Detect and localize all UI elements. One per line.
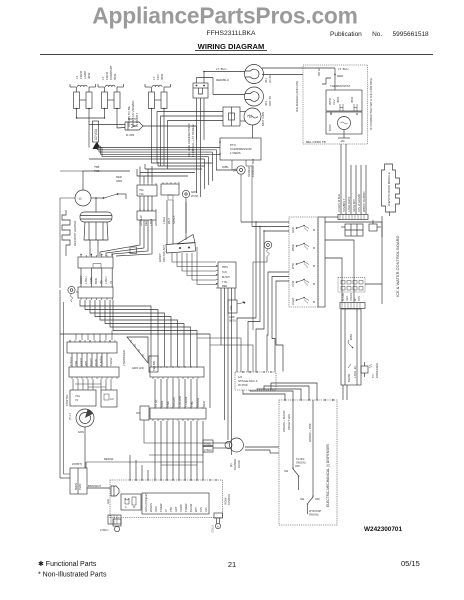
svg-text:SW(ON): SW(ON) [296,462,306,465]
svg-text:LT.BLU: LT.BLU [100,528,108,532]
left rail wire [60,171,83,288]
wire RED/BLU to bulb2 [197,78,246,95]
svg-text:ICE/WTR DOOR MODULE: ICE/WTR DOOR MODULE [387,172,391,206]
terminal note vertical text [187,123,195,157]
board bottom connector right [212,494,232,533]
svg-text:RED: RED [346,296,349,301]
evap fan motor circle [68,409,94,468]
svg-text:05/15: 05/15 [401,559,420,568]
dispenser left labels [282,410,312,442]
svg-text:ICE MAKER (ADD-ON): ICE MAKER (ADD-ON) [295,81,299,112]
svg-text:(W/O): (W/O) [229,320,236,323]
thermostat switch contact [91,193,126,199]
board wire labels entering top [130,455,148,480]
svg-text:WTR: WTR [291,263,295,269]
P2 wire color labels [162,215,176,224]
damper door motor [203,438,279,470]
svg-text:L.BLU -20-: L.BLU -20- [353,365,357,378]
svg-text:TAN: TAN [222,271,227,274]
ice water board drop wire [381,216,383,304]
S1 labels [79,275,113,284]
CN2 labels [342,293,361,301]
lamp socket junction dots [76,108,165,119]
icemaker dashed enclosure [303,65,368,144]
ice & water control board label [395,235,400,297]
svg-text:W/GRN: W/GRN [149,503,153,512]
board pin label box [142,493,209,514]
svg-text:ORN: ORN [160,401,164,407]
svg-text:-11-: -11- [78,197,83,201]
svg-text:BRN/W: BRN/W [196,397,200,407]
svg-text:NON-S: NON-S [172,215,176,224]
LED indicator [361,362,379,378]
svg-text:RED: RED [222,285,227,288]
svg-text:RD(B): RD(B) [204,443,211,446]
ice/water door module stepped outline [382,164,400,216]
svg-text:75A: 75A [139,188,144,192]
harness step wires mid [137,160,213,176]
icemaker water valve inner box [326,90,362,111]
board inner fuse box [121,494,141,510]
svg-text:73 (2): 73 (2) [154,400,158,407]
strip A feed drops [76,331,112,341]
svg-text:MOT GRN: MOT GRN [261,112,265,126]
svg-text:RED: RED [144,220,148,226]
svg-text:ORN: ORN [154,506,158,512]
fan label [261,112,265,126]
svg-text:21: 21 [228,560,236,569]
half stage ADC box [235,371,276,390]
header logo [92,3,357,29]
svg-text:GRN: GRN [154,220,158,226]
small junction box [130,247,137,254]
dispenser aux switch 2 [300,494,322,517]
svg-text:W(PRT): W(PRT) [72,462,82,466]
strip E [150,407,206,421]
svg-text:ICE & WATER CONTROL BOARD: ICE & WATER CONTROL BOARD [395,235,400,297]
svg-text:T. BL: T. BL [222,281,228,284]
svg-text:VIOLET W/X: VIOLET W/X [287,414,291,430]
bulb B1 label [264,75,272,83]
R1 down verticals [221,288,235,455]
svg-text:TAN: TAN [358,296,361,301]
doors note vertical text [127,100,139,127]
svg-text:4504: 4504 [350,96,354,103]
icemaker bottom wires [306,90,350,144]
main harness bundle horizontals [89,143,220,159]
svg-text:GRN (24): GRN (24) [132,366,144,370]
svg-text:W/BL: W/BL [349,333,353,340]
lamp interconnect wires [77,114,197,166]
svg-text:L.BLU/W: L.BLU/W [178,395,182,407]
svg-text:DEFROST HEATER: DEFROST HEATER [73,221,77,246]
P1-P3 interconnect verticals [140,196,152,211]
ground eyelet G2 [182,190,198,202]
lamp L2 freezer lamp socket [98,84,124,128]
top border rule [40,54,433,56]
svg-text:74A: 74A [139,192,144,196]
svg-text:VIO/W: VIO/W [179,504,183,512]
svg-text:✱ Functional Parts: ✱ Functional Parts [38,560,97,568]
switch bank right-side wires [325,222,382,302]
svg-text:GRN (2) W(part): GRN (2) W(part) [144,493,148,512]
svg-text:TER B/R: TER B/R [152,361,156,371]
dispenser switch bank box [289,217,325,307]
defrost heater zigzag resistor [62,210,77,256]
right mid connector R1 [216,262,236,288]
svg-text:L.BLU: L.BLU [84,276,88,284]
control box M [65,379,111,406]
svg-text:INTLK: INTLK [317,67,321,76]
strip B [69,367,119,379]
svg-text:GRN/W + PNK: GRN/W + PNK [308,423,312,442]
svg-text:DISPENSER: DISPENSER [375,363,379,378]
svg-text:4504: 4504 [336,96,340,103]
svg-text:BEL OPRC TB: BEL OPRC TB [306,140,326,144]
svg-text:BODY: BODY [128,117,137,121]
svg-text:(T) LT: (T) LT [68,413,72,420]
svg-text:73A: 73A [74,361,78,366]
cabinet ground eyelet [216,159,255,177]
svg-text:(E): (E) [229,463,233,467]
GRD W/O arrow label [228,300,246,323]
svg-text:ICE: ICE [284,470,289,473]
small box left of strip E [136,406,213,465]
svg-text:ICE: ICE [300,498,305,501]
svg-text:MTR: MTR [328,124,332,131]
svg-text:C3: C3 [110,397,114,401]
terminal tag box [149,356,158,372]
svg-text:BLK/W: BLK/W [347,373,351,382]
pin strip P3 [137,209,156,220]
quick-connect plug D-303 [125,117,143,137]
board top pin dots [129,479,216,480]
svg-text:Y B (1): Y B (1) [69,357,73,366]
svg-text:W242300701: W242300701 [364,526,402,533]
ground eyelet above bank [253,241,272,330]
half stage to dispenser verticals [243,383,347,400]
svg-text:TAN: TAN [199,507,203,512]
light bulb B1 [245,65,264,84]
svg-text:WIRING DIAGRAM: WIRING DIAGRAM [198,42,265,51]
light bulb B2 [245,87,264,106]
svg-text:L.BLU: L.BLU [162,217,166,224]
svg-text:GRN3 W/Y: GRN3 W/Y [352,199,356,212]
svg-text:FFHS2311LBKA: FFHS2311LBKA [207,30,256,37]
connector bar CN1 [325,215,368,220]
strip C [150,366,204,379]
defrost thermostat circle [75,171,130,206]
svg-text:40W: 40W [87,73,91,79]
svg-text:DOOR: DOOR [237,460,241,468]
switch SW4 [291,279,315,287]
strip A labels [69,356,113,366]
svg-text:TAN/BRN: TAN/BRN [228,494,231,505]
dispenser module box [279,399,337,525]
svg-text:Publication No. 5995661518: Publication No. 5995661518 [330,31,429,38]
connector bar CN3 [340,303,365,309]
R1 feed wires [172,247,216,285]
relay grid block [341,224,363,236]
switch SW2 [291,243,315,251]
P2 down verticals [167,200,186,244]
svg-text:LED: LED [106,499,110,504]
svg-text:RED: RED [202,401,206,407]
freezer fan motor M1 [244,108,261,125]
pin strip P2 [161,182,179,200]
svg-text:THERMOSTAT: THERMOSTAT [330,84,350,88]
bank to board fan wires [237,221,289,372]
svg-text:(2) 60: (2) 60 [268,75,272,83]
svg-text:OFF: OFF [295,465,300,468]
board inlet connector [106,486,119,504]
svg-text:WIDE: WIDE [291,244,295,251]
svg-text:TAN/BRN T: TAN/BRN T [342,198,346,212]
svg-text:W PNK: W PNK [238,383,248,387]
icemaker note right vertical [369,77,373,130]
svg-text:AppliancePartsPros.com: AppliancePartsPros.com [92,3,357,29]
svg-text:DAMPER: DAMPER [233,459,237,470]
icemaker drop wires to CN1 [341,144,346,214]
svg-text:RED/BLU: RED/BLU [216,78,229,82]
svg-text:BRN/WHT: BRN/WHT [88,484,101,488]
svg-text:(B): (B) [99,280,103,284]
svg-text:60W: 60W [113,74,117,80]
svg-text:LT. BLU: LT. BLU [338,67,348,71]
svg-text:GRY: GRY [174,506,178,512]
svg-text:GRN: GRN [78,430,84,434]
svg-text:RED/W: RED/W [104,457,114,461]
dispenser title vertical [326,443,330,507]
icemaker interlock step wire [262,67,348,90]
svg-text:LTGRN/RED: LTGRN/RED [122,350,126,366]
connector bar CN2 [338,278,382,293]
strip A-B verticals [72,353,107,367]
svg-text:W (R): W (R) [191,194,198,198]
ground triangle symbol [122,337,148,370]
freezer fan block [157,107,246,169]
svg-text:W/BRN TAN/BRN: W/BRN TAN/BRN [362,191,366,212]
strip C labels [154,395,206,407]
wire LT. BLU to bulb1 [203,67,245,72]
pin strip P1 [137,183,158,226]
svg-text:Y/GRN: Y/GRN [350,293,353,301]
svg-text:Y/BL: Y/BL [190,400,194,407]
compressor box bottom stubs [232,160,252,227]
svg-text:CONDUCTOR: CONDUCTOR [251,159,255,177]
svg-text:IF CONNECTED WITH ICE CONTROL: IF CONNECTED WITH ICE CONTROL [369,77,373,130]
svg-text:60W: 60W [160,74,164,80]
svg-text:RED: RED [337,74,344,78]
defrost heater element bar [80,197,112,256]
svg-text:ORN: ORN [116,179,122,183]
svg-text:EXP-5: EXP-5 [79,357,83,366]
bulb B2 label [264,96,272,106]
svg-text:PRPL: PRPL [222,266,229,269]
board bottom connector left [100,515,121,532]
S2 fan-out wires [60,300,210,408]
svg-text:-20-: -20- [340,139,345,143]
strip C-E verticals [155,379,197,408]
svg-text:74: 74 [75,398,79,402]
main harness triangle junction [94,142,100,148]
lamp L2 label [101,65,117,80]
svg-text:1 PERS: 1 PERS [230,151,241,155]
aux box D [101,390,117,407]
P1 feed verticals [140,166,152,183]
svg-text:D-303: D-303 [126,133,135,137]
svg-text:* Non-Illustrated Parts: * Non-Illustrated Parts [38,572,107,579]
rocker light switch [158,235,196,263]
svg-text:BRN: BRN [94,278,98,284]
svg-text:VOLT(R) ACT: VOLT(R) ACT [162,245,166,262]
left rail second wire [64,302,71,474]
small diode box [369,220,381,231]
strip A evaporator connector [67,340,117,353]
svg-text:W/Y: W/Y [194,507,198,512]
svg-text:T-A/WH: T-A/WH [99,356,103,366]
switch drop wires [185,202,187,240]
ground eyelet G3 [68,286,75,302]
lamp L1 label [75,70,91,79]
P3 down verticals [100,220,152,256]
switch SW1 [291,225,315,233]
connector 10VGA vertical tag [93,121,99,149]
svg-text:LT. BLU: LT. BLU [216,67,226,71]
svg-text:GRN3-W: GRN3-W [139,215,143,226]
icemaker label left vertical [295,81,299,112]
svg-text:BLK/Y: BLK/Y [89,358,93,366]
svg-text:PNK: PNK [166,401,170,407]
switch SW3 [291,261,315,269]
lamp L1 freezer lamp socket [70,84,96,122]
switch SW5 [291,297,315,305]
svg-text:73A/W: 73A/W [109,357,113,366]
svg-text:ELECTRIC-MECHANICAL (I) DISPEN: ELECTRIC-MECHANICAL (I) DISPENSER [326,443,330,507]
svg-text:LIGHT: LIGHT [291,297,295,305]
bundle bend-down verticals [197,126,217,197]
svg-text:LINE: LINE [230,305,233,311]
svg-text:LT.GRN W BLK: LT.GRN W BLK [337,194,341,212]
defrost labels 75B 74B [94,165,122,183]
svg-text:CONTRL: CONTRL [65,394,69,406]
svg-text:BL/WH: BL/WH [222,276,230,279]
svg-text:SW(ON): SW(ON) [309,514,319,517]
svg-text:LT.BLU: LT.BLU [204,449,212,452]
main power box [60,290,110,494]
svg-text:BLK/W: BLK/W [342,293,345,301]
dispenser internal verticals [293,400,313,494]
svg-text:L.BLK (GRN): L.BLK (GRN) [347,197,351,212]
svg-text:PWR: PWR [78,483,82,490]
main control board [86,457,223,518]
svg-text:W/BL: W/BL [222,165,229,169]
lamp L3 fresh food lamp socket [145,84,171,145]
svg-text:OFF: OFF [315,498,320,501]
svg-text:74(B): 74(B) [89,277,93,284]
svg-text:PNK/W: PNK/W [184,503,188,512]
tall dispenser UI strip [341,309,361,385]
svg-text:T-LGRN: T-LGRN [184,397,188,407]
fan feed links to half stage box [197,338,253,372]
compressor relay box [219,138,261,160]
door module label vertical [387,172,391,206]
svg-text:W/GRN: W/GRN [172,397,176,407]
svg-text:TAN LT.GRN/W: TAN LT.GRN/W [357,194,361,212]
svg-text:10 VGA: 10 VGA [94,128,98,140]
strip S1 [78,254,113,268]
dispenser aux switch 1 [284,458,306,490]
svg-text:LT.BLU: LT.BLU [212,525,215,533]
icemaker supply wires from bulbs [262,74,303,76]
fan to compressor wire [252,125,254,138]
svg-text:TO: TO [371,374,375,378]
right feed wires to connector bar [337,165,366,214]
svg-text:P/LBL: P/LBL [94,358,98,366]
svg-text:BLU/W: BLU/W [189,503,193,512]
svg-text:LT: LT [164,509,168,512]
icemaker motor inner box [326,112,362,134]
svg-text:W/GRN + BLK/W: W/GRN + BLK/W [282,410,286,432]
svg-text:SKT 60: SKT 60 [268,96,272,106]
svg-text:CCW: CCW [291,280,295,287]
svg-text:W/Y: W/Y [84,361,88,366]
icemaker thermostat dashed label [330,84,350,88]
svg-text:GRD: GRD [291,227,295,233]
interlock switch box [193,72,208,141]
svg-text:PNK/W: PNK/W [159,503,163,512]
svg-text:L.BLU: L.BLU [104,276,108,284]
svg-text:Y/W: Y/W [169,507,173,512]
svg-text:VIO: VIO [204,508,208,512]
svg-text:WHT: WHT [167,218,171,224]
strip S2 [76,268,113,300]
strip E down verticals [155,421,203,480]
lamp L3 label [152,73,164,80]
